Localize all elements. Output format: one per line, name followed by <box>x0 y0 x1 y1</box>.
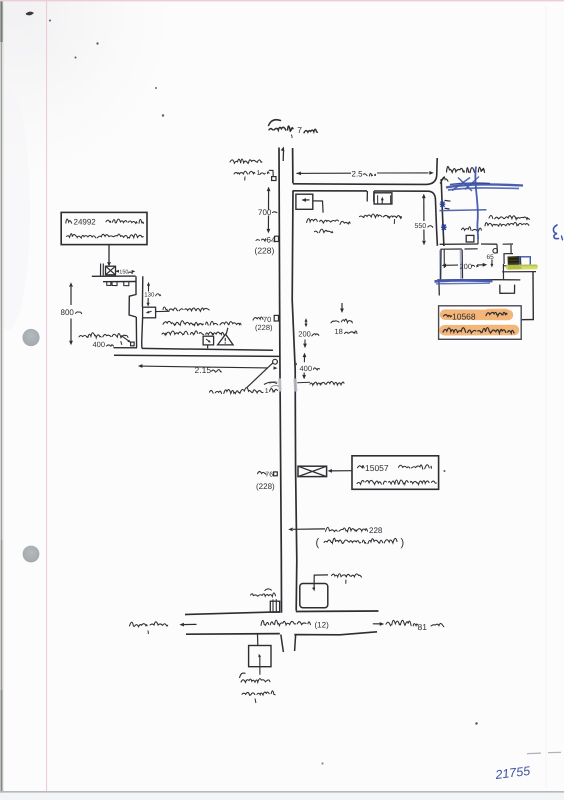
svg-text:130: 130 <box>144 292 155 299</box>
svg-text:(12): (12) <box>315 621 330 630</box>
svg-text:24992: 24992 <box>74 217 97 226</box>
svg-text:2.5: 2.5 <box>352 170 364 179</box>
svg-text:76: 76 <box>265 472 273 479</box>
svg-text:200: 200 <box>298 329 311 338</box>
svg-text:2.15: 2.15 <box>195 365 212 375</box>
svg-text:1: 1 <box>265 388 269 395</box>
svg-text:15057: 15057 <box>365 463 389 473</box>
svg-text:200: 200 <box>460 262 473 271</box>
svg-text:400: 400 <box>93 340 106 349</box>
svg-text:18: 18 <box>335 327 343 336</box>
svg-text:): ) <box>401 537 405 549</box>
svg-text:(228): (228) <box>255 246 275 256</box>
svg-text:10568: 10568 <box>452 312 476 322</box>
svg-text:7: 7 <box>297 125 302 135</box>
svg-text:1: 1 <box>257 170 261 177</box>
svg-text:65: 65 <box>487 254 495 261</box>
svg-text:800: 800 <box>61 308 75 317</box>
svg-text:150: 150 <box>119 269 128 275</box>
svg-text:228: 228 <box>369 526 383 535</box>
svg-text:400: 400 <box>300 364 313 373</box>
svg-text:700: 700 <box>258 208 272 217</box>
svg-text:(228): (228) <box>256 482 275 491</box>
svg-text:(228): (228) <box>255 323 273 332</box>
svg-text:(: ( <box>316 537 320 549</box>
svg-text:81: 81 <box>418 622 428 632</box>
svg-text:550: 550 <box>415 223 427 230</box>
